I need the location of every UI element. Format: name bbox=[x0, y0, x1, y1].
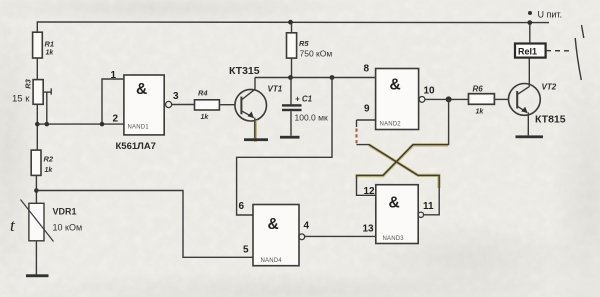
svg-text:1: 1 bbox=[111, 70, 117, 81]
wire VT1 emitter highlight bbox=[254, 120, 257, 142]
svg-text:1k: 1k bbox=[476, 109, 485, 116]
wire NAND1 pin1 tie bbox=[102, 79, 124, 124]
resistor R6 bbox=[469, 85, 495, 116]
wire R4 to VT1 base bbox=[219, 104, 235, 106]
wire cross latch highlight yellow 1 bbox=[356, 145, 449, 176]
wire NAND2 out10 to NAND3 pin12 (cross) bbox=[357, 99, 449, 195]
svg-text:NAND2: NAND2 bbox=[380, 122, 402, 128]
wire rail to R5 bbox=[291, 22, 293, 33]
wire collector node line bbox=[255, 77, 376, 79]
wire NAND3 out11 to NAND2 pin9 (cross) bbox=[357, 145, 440, 215]
svg-text:R4: R4 bbox=[198, 89, 208, 98]
svg-text:&: & bbox=[136, 81, 147, 98]
svg-text:NAND3: NAND3 bbox=[383, 236, 405, 242]
svg-text:NAND1: NAND1 bbox=[128, 125, 150, 131]
svg-text:NAND4: NAND4 bbox=[261, 258, 283, 264]
wire pin9 stub bbox=[357, 119, 376, 121]
svg-text:КТ315: КТ315 bbox=[229, 65, 260, 77]
transistor VT1 KT315 bbox=[229, 65, 283, 121]
node C1 junction bbox=[288, 75, 293, 80]
relay contact blade bbox=[575, 38, 581, 80]
svg-text:R1: R1 bbox=[45, 40, 55, 49]
svg-text:5: 5 bbox=[243, 245, 249, 256]
transistor VT2 KT815 bbox=[509, 83, 566, 126]
svg-text:10: 10 bbox=[424, 86, 436, 97]
wire VT1 emitter to ground bbox=[254, 118, 256, 139]
wire rail to Rel1 bbox=[529, 23, 531, 44]
wire node A to NAND1 pin2 bbox=[37, 123, 124, 125]
capacitor C1 100.0uF bbox=[282, 94, 328, 122]
svg-text:100.0 мк: 100.0 мк bbox=[295, 112, 328, 122]
svg-text:13: 13 bbox=[363, 224, 375, 235]
svg-text:3: 3 bbox=[173, 91, 179, 102]
NAND3 gate U1.3 bbox=[376, 185, 424, 244]
ground bbox=[26, 274, 49, 277]
ground C1 bbox=[280, 136, 300, 139]
svg-text:11: 11 bbox=[423, 201, 434, 212]
svg-text:VDR1: VDR1 bbox=[53, 207, 77, 217]
wire pin9 dark top bbox=[356, 120, 358, 127]
svg-text:9: 9 bbox=[364, 104, 370, 115]
svg-text:КТ815: КТ815 bbox=[535, 114, 566, 126]
wire R6 to VT2 base bbox=[494, 98, 508, 100]
resistor R2 bbox=[31, 150, 54, 175]
resistor R5 750k bbox=[287, 33, 333, 59]
svg-text:&: & bbox=[389, 195, 400, 212]
node B junction bbox=[34, 188, 39, 193]
node rail-R5 junction bbox=[288, 20, 293, 25]
NAND4 gate U1.4 bbox=[253, 205, 305, 266]
wire node to C1 bbox=[290, 78, 292, 105]
wire R3 wiper down bbox=[46, 92, 48, 124]
wire VT1 collector up bbox=[254, 78, 256, 90]
resistor R1 bbox=[33, 32, 55, 58]
svg-text:&: & bbox=[268, 216, 279, 233]
svg-text:6: 6 bbox=[239, 201, 245, 212]
svg-text:VT2: VT2 bbox=[542, 83, 557, 92]
NAND2 gate U1.2 bbox=[376, 69, 425, 130]
wire VT2 emitter to ground bbox=[527, 112, 529, 135]
wire R2 to VDR1 bbox=[35, 175, 37, 203]
relay Rel1 bbox=[515, 44, 546, 58]
svg-text:VT1: VT1 bbox=[268, 85, 283, 94]
node pin1/pin2 junction bbox=[100, 122, 105, 127]
NAND1 gate U1.1 bbox=[124, 75, 172, 135]
node feedback junction bbox=[446, 96, 452, 102]
svg-text:Rel1: Rel1 bbox=[518, 46, 537, 56]
svg-text:10 кОм: 10 кОм bbox=[53, 223, 83, 233]
svg-text:1k: 1k bbox=[45, 167, 54, 174]
thermistor VDR1 bbox=[10, 200, 82, 242]
wire C1 to ground bbox=[290, 111, 292, 136]
ground VT1 bbox=[244, 138, 268, 141]
svg-text:1k: 1k bbox=[201, 114, 210, 121]
svg-text:15 к: 15 к bbox=[12, 94, 30, 105]
wire Rel1 dashed link to contact bbox=[546, 50, 573, 52]
svg-text:4: 4 bbox=[304, 221, 310, 232]
node A junctions bbox=[35, 122, 40, 127]
wire VT2 collector to Rel1 bbox=[528, 58, 530, 87]
svg-text:1k: 1k bbox=[46, 50, 55, 57]
svg-text:U пит.: U пит. bbox=[538, 10, 563, 20]
wire cross latch highlight yellow 2 bbox=[369, 145, 439, 188]
potentiometer R3 15k bbox=[12, 78, 51, 104]
relay contact fixed bbox=[582, 25, 584, 38]
svg-text:750 кОм: 750 кОм bbox=[300, 49, 333, 59]
node branch to NAND4 junction bbox=[330, 75, 335, 80]
node rail-Rel1 junction bbox=[527, 20, 532, 25]
resistor R4 bbox=[195, 89, 220, 122]
wire node B to NAND4 pin5 bbox=[36, 191, 253, 258]
svg-text:К561ЛА7: К561ЛА7 bbox=[116, 141, 156, 152]
svg-text:&: & bbox=[390, 77, 401, 94]
wire R5 to node line bbox=[291, 58, 293, 77]
wire NAND1 out to R4 bbox=[172, 104, 195, 106]
svg-text:R2: R2 bbox=[44, 155, 54, 164]
svg-text:+ C1: + C1 bbox=[295, 94, 313, 103]
wire NAND2 out to R6 bbox=[425, 98, 469, 100]
wire top supply rail bbox=[37, 22, 549, 32]
ground VT2 bbox=[516, 135, 544, 138]
supply terminal U pit bbox=[528, 10, 562, 20]
svg-text:R5: R5 bbox=[299, 39, 309, 48]
wire R3 to node A bbox=[36, 104, 38, 150]
wire node to NAND4 pin6 bbox=[237, 78, 332, 216]
wire VDR1 to ground bbox=[35, 241, 37, 275]
wire R1 to R3 bbox=[36, 58, 38, 80]
wire pin9 dashed rust bbox=[356, 129, 358, 145]
wire NAND4 out to NAND3 pin13 bbox=[305, 235, 376, 237]
svg-text:R6: R6 bbox=[473, 85, 484, 94]
svg-text:2: 2 bbox=[113, 114, 119, 125]
svg-text:R3: R3 bbox=[24, 78, 33, 88]
svg-text:8: 8 bbox=[364, 64, 370, 75]
